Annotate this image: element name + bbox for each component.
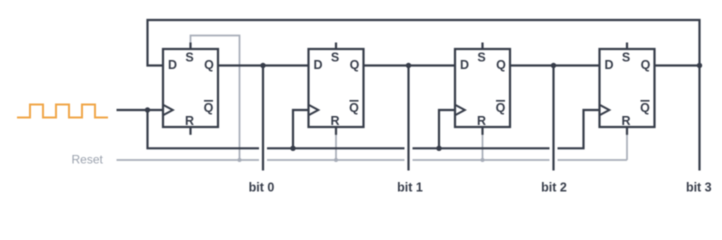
wire feedback: Q of U4 via top rail to D of U1	[148, 20, 700, 66]
junction bit 2	[551, 63, 556, 68]
labels flip-flop U2	[313, 51, 359, 129]
wire reset to R of U3	[482, 131, 484, 160]
net Reset: gray reset rail	[117, 36, 628, 161]
wire Q of U3 to D of U4	[510, 64, 600, 66]
labels flip-flop U4	[604, 51, 650, 129]
svg-text:S: S	[622, 51, 630, 65]
wire reset to S of U1 (up and over)	[191, 36, 240, 161]
svg-text:Reset: Reset	[72, 153, 104, 167]
flip-flop U1 box	[163, 49, 218, 127]
svg-text:D: D	[460, 58, 469, 72]
junction bit 0	[260, 63, 265, 68]
junction on reset rail at R of U2	[334, 158, 338, 162]
pin R stub U4	[626, 127, 628, 135]
wire Q of U2 to D of U3	[364, 64, 456, 66]
svg-text:bit 1: bit 1	[397, 181, 423, 195]
svg-text:S: S	[477, 51, 485, 65]
svg-text:Q: Q	[349, 101, 359, 115]
pin S stub U1	[189, 43, 191, 50]
svg-text:Q: Q	[350, 58, 360, 72]
svg-text:D: D	[168, 58, 177, 72]
labels flip-flop U3	[460, 51, 506, 129]
wire reset to R of U2	[335, 131, 337, 160]
labels flip-flop U1	[168, 51, 214, 129]
svg-text:Q: Q	[204, 101, 214, 115]
svg-text:Q: Q	[496, 58, 506, 72]
pin S stub U3	[481, 43, 483, 50]
svg-text:bit 0: bit 0	[249, 181, 275, 195]
svg-text:Q: Q	[641, 58, 651, 72]
pin R stub U3	[481, 127, 483, 135]
pin R stub U2	[335, 127, 337, 135]
wire Q of U4 to feedback node	[655, 64, 700, 66]
wire bit 0 tap down	[262, 66, 264, 171]
wire bit 3 tap down	[698, 66, 700, 171]
clock triangle U4	[600, 105, 610, 116]
junction on reset rail at S-wire	[238, 158, 242, 162]
junction clock bus at U2 tap	[290, 146, 295, 151]
svg-text:R: R	[621, 114, 630, 128]
svg-text:S: S	[185, 51, 193, 65]
wire clock tap to clk of U2	[293, 110, 309, 148]
junction on reset rail at R of U3	[481, 158, 485, 162]
clock waveform (square wave)	[17, 105, 108, 118]
wire reset to R of U4 (vertical up)	[626, 131, 628, 160]
junction bit 1	[406, 63, 411, 68]
overbar for Q̄ U2	[350, 100, 359, 102]
clock triangle U2	[309, 105, 319, 116]
pin R stub U1	[189, 127, 191, 135]
white casings for bit line crossings over clock bus and reset rail	[263, 141, 554, 166]
svg-text:D: D	[313, 58, 322, 72]
overbar for Q̄ U1	[204, 100, 213, 102]
junction clock at U1	[145, 107, 150, 112]
junction clock bus at U3 tap	[436, 146, 441, 151]
svg-text:Q: Q	[204, 58, 214, 72]
svg-text:R: R	[477, 114, 486, 128]
svg-text:D: D	[604, 58, 613, 72]
wire clock input to clk of U1	[117, 109, 164, 111]
overbar for Q̄ U3	[496, 100, 505, 102]
svg-text:R: R	[330, 114, 339, 128]
svg-text:bit 3: bit 3	[686, 181, 712, 195]
svg-text:Q: Q	[496, 101, 506, 115]
overbar for Q̄ U4	[641, 100, 650, 102]
junction bit 3 / feedback	[697, 63, 702, 68]
wire reset rail horizontal	[117, 159, 628, 161]
pin S stub U2	[335, 43, 337, 50]
flip-flop U3 box	[455, 49, 510, 127]
flip-flop U4 box	[600, 49, 655, 127]
wire clock bus: down, along bottom, up to clk of U4	[148, 110, 600, 148]
flip-flop U2 box	[309, 49, 364, 127]
svg-text:bit 2: bit 2	[541, 181, 567, 195]
wire clock tap to clk of U3	[439, 110, 455, 148]
wire bit 2 tap down	[552, 66, 554, 171]
wire bit 1 tap down	[407, 66, 409, 171]
pin S stub U4	[626, 43, 628, 50]
clock triangle U3	[455, 105, 465, 116]
svg-text:Q: Q	[640, 101, 650, 115]
clock triangle U1	[163, 105, 173, 116]
svg-text:R: R	[185, 114, 194, 128]
svg-text:S: S	[331, 51, 339, 65]
wire Q of U1 to D of U2	[218, 64, 309, 66]
